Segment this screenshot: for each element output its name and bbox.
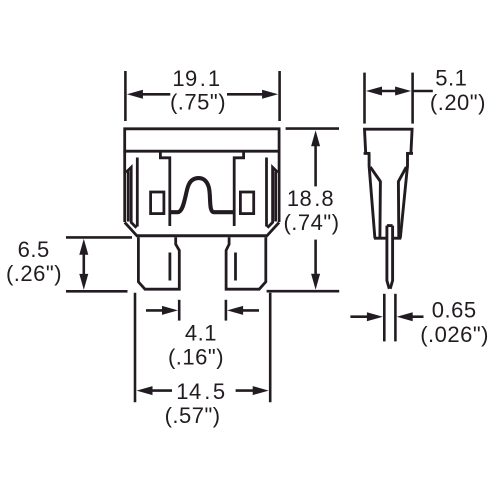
front view: right latch outer line: [274, 172, 277, 222]
arrowhead 0.65 right (points left): [397, 312, 413, 321]
svg-text:(.026"): (.026"): [420, 322, 489, 347]
arrowhead 19.1 right: [262, 90, 278, 99]
dimension 14.5: right extension line: [269, 293, 272, 403]
front view: right blade: [226, 237, 266, 289]
dimension 18.8: bottom extension line: [267, 290, 340, 293]
front view: body bottom chamfer left: [125, 222, 137, 235]
dimension 0.65: left arrow line: [350, 315, 367, 318]
dimension 18.8: upper dim line: [314, 144, 317, 186]
dimension 19.1: left extension line: [66, 71, 433, 402]
arrowhead 6.5 down: [79, 274, 88, 290]
arrowhead 6.5 up: [79, 239, 88, 255]
svg-text:14.5: 14.5: [176, 379, 225, 404]
side view: neck and taper right: [400, 153, 407, 238]
svg-text:(.74"): (.74"): [283, 210, 339, 235]
dimension 18.8: lower dim line: [314, 240, 317, 276]
arrowhead 18.8 up: [311, 130, 320, 146]
dimension 19.1: left leader: [141, 93, 170, 96]
arrowhead 4.1 right (points left): [227, 306, 243, 315]
front view: fuse cap outline: [123, 129, 280, 289]
arrowhead 5.1 left: [366, 87, 382, 96]
svg-text:4.1: 4.1: [185, 321, 217, 346]
side view: neck and taper left: [369, 153, 375, 238]
dimension 14.5: left dim line: [151, 389, 172, 392]
front view: left side window: [151, 192, 164, 214]
side view: blade top tick: [387, 224, 393, 227]
side view: blade right edge: [390, 226, 392, 289]
dimension 14.5: right dim line: [236, 389, 255, 392]
dimension 6.5: top extension line: [66, 236, 132, 239]
front view: cap bottom line: [123, 150, 280, 153]
svg-text:18.8: 18.8: [287, 186, 334, 211]
front view: left blade tick: [168, 253, 171, 281]
dimension 5.1: arrow line: [378, 90, 399, 93]
dimension 4.1: right arrow line: [241, 309, 259, 312]
front view: left body inner edge: [136, 158, 139, 227]
svg-text:6.5: 6.5: [18, 237, 50, 262]
front view: fuse element (thick): [171, 178, 234, 212]
dimension 4.1: left extension line: [178, 300, 181, 321]
side view: bottom ledge right: [393, 237, 402, 240]
svg-text:(.75"): (.75"): [170, 90, 226, 115]
front view: body bottom edge: [136, 234, 268, 237]
svg-text:0.65: 0.65: [432, 298, 477, 323]
svg-text:(.57"): (.57"): [165, 403, 221, 428]
arrowhead 0.65 left (points right): [367, 312, 383, 321]
dimension 18.8: top extension line: [286, 127, 339, 130]
front view: right body inner edge: [265, 158, 268, 227]
front view: left window post: [160, 151, 169, 226]
dimension 5.1: left extension line: [363, 73, 366, 124]
svg-text:5.1: 5.1: [435, 66, 467, 91]
arrowhead 14.5 right: [253, 386, 269, 395]
side view: step ledge left: [364, 152, 371, 155]
front view: left blade: [138, 237, 179, 289]
dimension 5.1: leader to text: [413, 90, 433, 93]
front view: right side window: [240, 192, 253, 214]
arrowhead 19.1 left: [127, 90, 143, 99]
front view: left latch outer line: [127, 172, 130, 222]
side view outline: [364, 129, 413, 289]
svg-text:19.1: 19.1: [172, 66, 220, 91]
side view: funnel wall left: [370, 167, 380, 238]
dimension 6.5: bottom extension line: [66, 290, 128, 293]
dimension 19.1: right extension line: [278, 71, 281, 121]
dimension 4.1: left arrow line: [146, 309, 164, 312]
side view: bottom ledge left: [374, 237, 387, 240]
front view: right window post: [234, 151, 243, 226]
dimension 4.1: right extension line: [225, 300, 228, 321]
dimension 6.5: dim line: [83, 252, 86, 277]
arrowhead 5.1 right: [395, 87, 411, 96]
front view: left latch inner line: [126, 167, 137, 227]
arrowhead 14.5 left: [137, 386, 153, 395]
side view: blade left edge: [387, 226, 389, 289]
dimension 0.65: left extension line: [383, 294, 386, 342]
side view: step ledge right: [406, 152, 413, 155]
svg-text:(.26"): (.26"): [6, 261, 62, 286]
dimension 5.1: right extension line: [411, 73, 414, 124]
dimension 14.5: left extension line: [134, 293, 137, 403]
side view: funnel wall right: [398, 167, 406, 238]
arrowhead 18.8 down: [311, 274, 320, 290]
dimension 0.65: right arrow line: [412, 315, 424, 318]
front view: right latch inner line: [267, 167, 278, 227]
svg-text:(.20"): (.20"): [430, 90, 486, 115]
svg-text:(.16"): (.16"): [168, 345, 224, 370]
dimension 0.65: right extension line: [394, 294, 397, 342]
front view: body bottom chamfer right: [267, 222, 279, 235]
side view: cap: [365, 129, 413, 153]
arrowhead 4.1 left (points right): [162, 306, 178, 315]
front view: right blade tick: [234, 253, 237, 281]
dimension 19.1: right leader: [227, 93, 264, 96]
